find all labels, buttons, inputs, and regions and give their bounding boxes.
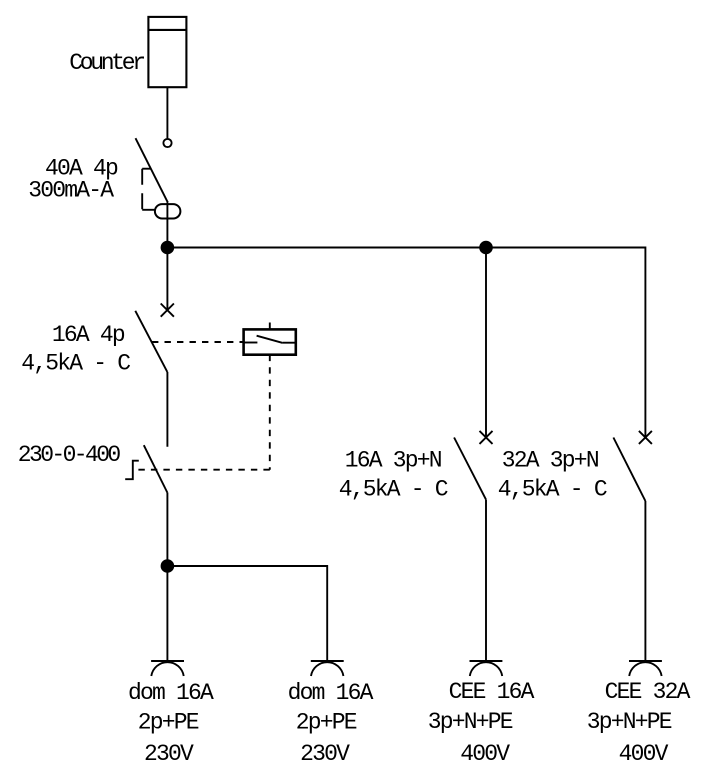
svg-text:400V: 400V: [460, 741, 510, 767]
wire breaker C to outlet 3: [485, 500, 487, 661]
svg-text:300mA-A: 300mA-A: [28, 178, 114, 204]
svg-text:16A 4p: 16A 4p: [52, 322, 125, 348]
label dom 16A / 2p+PE / 230V outlet 2: [288, 680, 374, 767]
svg-text:16A 3p+N: 16A 3p+N: [345, 448, 441, 474]
svg-text:4,5kA - C: 4,5kA - C: [498, 477, 607, 503]
svg-text:3p+N+PE: 3p+N+PE: [428, 709, 513, 735]
wire node B down to breaker C: [485, 248, 487, 438]
relay box K1: [244, 329, 296, 354]
outlet 4 socket symbol: [629, 661, 662, 676]
disconnector contact circle: [163, 139, 171, 147]
RCD test bracket vertical dashed: [141, 169, 143, 210]
svg-text:2p+PE: 2p+PE: [296, 710, 357, 736]
breaker cross L: [161, 304, 174, 317]
dashed link breaker to relay: [152, 341, 244, 343]
svg-text:dom 16A: dom 16A: [128, 680, 214, 706]
svg-text:2p+PE: 2p+PE: [138, 710, 199, 736]
svg-text:400V: 400V: [619, 741, 669, 767]
breaker blade L: [135, 311, 167, 372]
node C junction: [161, 559, 175, 573]
wire node C to outlet 1: [166, 566, 168, 661]
label CEE 16A / 3p+N+PE / 400V outlet 3: [428, 679, 535, 767]
label 40A 4p / 300mA-A: [28, 156, 118, 204]
breaker blade D: [613, 438, 645, 502]
wire blade to node A: [166, 202, 168, 247]
label 16A 4p / 4,5kA - C: [21, 322, 130, 377]
svg-text:32A 3p+N: 32A 3p+N: [502, 448, 598, 474]
outlet 3 socket symbol: [470, 661, 503, 676]
node A junction: [161, 241, 175, 255]
RCD switch blade Q1: [136, 138, 168, 202]
svg-text:CEE 32A: CEE 32A: [605, 679, 691, 705]
counter meter box: [148, 17, 186, 87]
svg-text:dom 16A: dom 16A: [288, 680, 374, 706]
changeover switch blade: [144, 445, 168, 492]
relay top stub: [269, 323, 271, 330]
outlet 2 socket symbol: [311, 661, 344, 676]
relay contact blade: [257, 336, 283, 343]
outlet 1 socket symbol: [151, 661, 184, 676]
label 32A 3p+N / 4,5kA - C: [498, 448, 607, 503]
svg-text:3p+N+PE: 3p+N+PE: [587, 709, 672, 735]
wire breaker L to switch: [166, 372, 168, 447]
changeover actuator step symbol: [125, 461, 139, 480]
RCD sensing toroid oval: [155, 204, 181, 218]
svg-text:4,5kA - C: 4,5kA - C: [339, 477, 448, 503]
RCD test bracket bottom: [142, 209, 154, 211]
label 16A 3p+N / 4,5kA - C: [339, 448, 448, 503]
wire bus corner down to breaker D: [644, 247, 646, 438]
bus wire horizontal: [167, 247, 645, 249]
dashed link relay to changeover switch: [269, 355, 271, 470]
svg-text:4,5kA - C: 4,5kA - C: [21, 351, 130, 377]
label CEE 32A / 3p+N+PE / 400V outlet 4: [587, 679, 691, 767]
svg-text:230V: 230V: [144, 741, 194, 767]
relay contact right lead: [283, 342, 296, 344]
label dom 16A / 2p+PE / 230V outlet 1: [128, 680, 214, 767]
breaker blade C: [454, 438, 486, 500]
breaker cross D: [639, 431, 652, 444]
wire node C to outlet 2: [167, 566, 327, 661]
svg-text:Counter: Counter: [69, 50, 144, 76]
svg-text:CEE 16A: CEE 16A: [449, 679, 535, 705]
relay contact left lead: [244, 342, 258, 344]
svg-text:230V: 230V: [300, 741, 350, 767]
wire node A down to breaker L: [166, 248, 168, 311]
wire counter to disconnector: [166, 87, 168, 138]
wire breaker D to outlet 4: [644, 501, 646, 661]
RCD test bracket top: [142, 168, 151, 170]
node B junction: [479, 241, 493, 255]
wire switch to node C: [166, 493, 168, 567]
breaker cross C: [480, 431, 493, 444]
svg-text:230-0-400: 230-0-400: [18, 442, 121, 468]
